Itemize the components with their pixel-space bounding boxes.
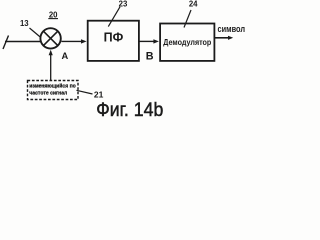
svg-text:ПФ: ПФ — [104, 30, 124, 44]
svg-text:13: 13 — [20, 19, 29, 28]
output arrowhead — [228, 36, 233, 40]
svg-text:частоте сигнал: частоте сигнал — [29, 91, 67, 97]
arrowhead into PF — [81, 39, 87, 43]
output wire — [215, 37, 230, 39]
input wire — [5, 41, 42, 43]
background paper — [0, 0, 246, 120]
arrowhead up into mixer — [49, 50, 53, 55]
svg-text:символ: символ — [218, 24, 246, 34]
svg-text:изменяющийся по: изменяющийся по — [29, 82, 76, 89]
arrowhead into demodulator — [153, 39, 159, 43]
leader line from 24 to demodulator — [184, 10, 191, 28]
bandpass filter block 23 (PF) — [88, 21, 139, 61]
wire PF to demodulator — [140, 40, 156, 42]
svg-text:A: A — [62, 51, 69, 61]
svg-text:Демодулятор: Демодулятор — [163, 38, 211, 47]
mixer X stroke 1 — [43, 31, 57, 45]
wire frequency-varying signal to mixer — [50, 53, 52, 81]
mixer X stroke 2 — [43, 31, 57, 45]
svg-text:24: 24 — [189, 0, 198, 8]
input break slash — [3, 36, 9, 50]
leader line from 13 to mixer — [30, 28, 43, 39]
wire mixer to PF — [61, 40, 82, 42]
svg-text:Фиг. 14b: Фиг. 14b — [96, 99, 163, 120]
mixer U20 circle — [40, 28, 60, 48]
svg-text:B: B — [146, 51, 154, 63]
leader line from 21 to dashed box — [77, 90, 93, 94]
leader line from 23 to PF — [108, 7, 120, 27]
demodulator block 24 — [160, 24, 214, 61]
dashed box 21 frequency-varying signal — [28, 81, 79, 100]
